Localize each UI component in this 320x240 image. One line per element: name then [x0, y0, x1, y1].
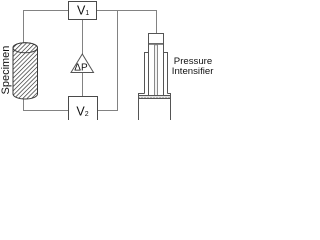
intensifier piston rod	[155, 45, 158, 96]
svg-text:Specimen: Specimen	[0, 46, 12, 95]
intensifier mid housing left wall	[145, 53, 149, 94]
specimen top ellipse	[13, 43, 38, 53]
valve V2 box	[69, 97, 98, 122]
intensifier bottom housing right wall	[168, 94, 171, 121]
intensifier mid housing right wall	[164, 53, 168, 94]
wire from dP transducer to V2 top	[82, 72, 84, 96]
intensifier inner bore walls extending down	[149, 53, 164, 96]
wire from V2 right up to top line (junction riser)	[97, 11, 117, 111]
wire from V1 bottom to dP transducer	[82, 19, 84, 54]
svg-text:ΔP: ΔP	[74, 63, 88, 74]
intensifier large piston (stippled band)	[139, 96, 171, 99]
wire from specimen bottom to V2 left	[24, 99, 69, 111]
wire from specimen top up and right to valve V1	[24, 11, 69, 46]
valve V1 box	[69, 2, 97, 20]
differential pressure transducer triangle	[71, 54, 94, 73]
intensifier small cylinder (top edge and walls)	[149, 34, 164, 53]
intensifier bottom housing left wall	[139, 94, 145, 121]
intensifier small piston bar	[149, 43, 163, 45]
specimen cylinder body (hatched)	[13, 43, 38, 99]
svg-text:Intensifier: Intensifier	[172, 66, 214, 77]
wire from V1 right to pressure intensifier feed	[96, 11, 156, 34]
